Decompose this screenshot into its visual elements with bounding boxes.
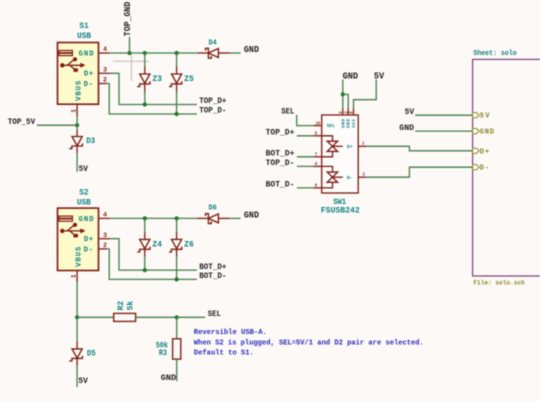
wire GND to SW1 <box>342 80 344 109</box>
wire 5V to sheet <box>415 114 472 116</box>
zener D3 <box>69 130 82 172</box>
analog switch SW1 body <box>322 115 359 193</box>
SW1 pin 7 <box>314 152 322 158</box>
svg-text:1: 1 <box>70 109 77 113</box>
svg-text:SEL: SEL <box>208 309 221 319</box>
svg-text:4: 4 <box>103 212 107 219</box>
svg-text:Z3: Z3 <box>152 75 162 84</box>
S1 pin 2 <box>99 77 108 84</box>
svg-text:5: 5 <box>315 131 318 137</box>
svg-text:5V: 5V <box>374 71 385 81</box>
SW1 pin 10 SEL <box>314 120 322 126</box>
svg-text:5V: 5V <box>79 164 89 174</box>
SW1 top pin 3 <box>345 108 349 115</box>
junction SEL/VBUS <box>75 315 79 319</box>
svg-text:2: 2 <box>103 77 107 84</box>
ghost cursor cross <box>113 52 149 81</box>
wire TOP_D+ net <box>110 73 197 104</box>
svg-text:D5: D5 <box>87 350 96 359</box>
wire SEL net <box>177 316 206 318</box>
svg-text:When S2 is plugged, SEL=5V/1 a: When S2 is plugged, SEL=5V/1 and D2 pair… <box>194 340 424 348</box>
svg-text:D3: D3 <box>86 137 95 146</box>
svg-text:GND: GND <box>399 123 414 133</box>
wire junction to R3 <box>176 317 178 339</box>
sheet pin 5V <box>473 113 491 121</box>
wire BOT_D+ net <box>110 239 197 270</box>
hierarchical sheet solo <box>473 59 540 276</box>
wire R3 to GND <box>176 359 178 381</box>
svg-text:D-: D- <box>347 175 353 181</box>
wire junction to R2 <box>77 316 114 318</box>
wire 5V to SW1 <box>354 80 377 109</box>
junction TOP_D- <box>175 112 179 116</box>
wire BOT_D+ to pin 7 <box>297 156 314 158</box>
svg-text:2: 2 <box>103 242 107 249</box>
S1 USB trident icon <box>60 57 85 72</box>
junction Z5 top <box>175 51 179 55</box>
svg-text:5V: 5V <box>78 376 88 386</box>
wire BOT_D- to pin 6 <box>297 187 314 189</box>
SW1 pin 2 D- <box>358 172 366 178</box>
svg-text:S2: S2 <box>79 188 88 197</box>
wire D- to sheet <box>366 167 472 177</box>
junction Z4 top <box>143 216 147 220</box>
svg-text:5k: 5k <box>126 301 135 311</box>
connector S2 body <box>58 208 99 270</box>
wire SEL to pin 10 <box>297 115 314 126</box>
junction TOP_GND <box>127 51 131 55</box>
svg-text:2: 2 <box>362 172 365 178</box>
svg-text:FSUSB242: FSUSB242 <box>321 207 360 216</box>
junction BOT_D+ <box>143 268 147 272</box>
svg-text:D+: D+ <box>480 148 489 156</box>
connector S1 body <box>58 43 99 105</box>
SW1 pin 6 <box>314 183 322 189</box>
S2 pin 1 <box>70 271 77 282</box>
svg-text:6: 6 <box>315 183 318 189</box>
svg-text:VBUS: VBUS <box>75 246 83 267</box>
zener Z6 <box>169 218 182 279</box>
sheet pin GND <box>473 129 494 137</box>
diode D4 <box>198 48 241 58</box>
junction BOT_D- <box>175 277 179 281</box>
SW1 switch element 1 <box>322 136 343 157</box>
svg-text:BOT_D+: BOT_D+ <box>266 148 295 158</box>
svg-text:R3: R3 <box>159 349 167 358</box>
S2 pin 3 <box>99 232 110 239</box>
svg-text:Z6: Z6 <box>184 241 194 250</box>
diode D6 <box>198 214 241 224</box>
svg-text:TOP_D+: TOP_D+ <box>199 96 226 106</box>
sheet pin D+ <box>473 148 490 156</box>
svg-text:1: 1 <box>362 141 365 147</box>
zener D5 <box>69 342 82 388</box>
wire VBUS S2 down <box>76 282 78 318</box>
wire R2 to junction <box>136 316 177 318</box>
wire to D5 <box>76 317 78 341</box>
svg-text:D-: D- <box>84 81 93 89</box>
sheet pin D- <box>473 165 490 173</box>
svg-text:VBUS: VBUS <box>75 80 83 101</box>
SW1 top pin 8 <box>351 108 355 115</box>
S2 receptacle icon <box>59 216 73 221</box>
svg-text:USB: USB <box>77 198 91 207</box>
svg-text:7: 7 <box>315 152 318 158</box>
svg-text:3: 3 <box>103 232 107 239</box>
zener Z3 <box>137 53 150 105</box>
svg-text:D-: D- <box>480 165 489 173</box>
wire D+ to sheet <box>366 146 472 151</box>
svg-text:GND: GND <box>343 71 359 81</box>
svg-text:GND: GND <box>79 216 95 224</box>
wire TOP_D+ to pin 5 <box>297 135 314 137</box>
svg-text:10: 10 <box>316 120 321 126</box>
SW1 pin 4 <box>314 161 322 167</box>
svg-text:GND: GND <box>79 51 95 59</box>
svg-text:BOT_D-: BOT_D- <box>266 180 295 190</box>
svg-text:TOP_5V: TOP_5V <box>8 117 36 127</box>
svg-text:TOP_GND: TOP_GND <box>123 1 133 36</box>
svg-text:5V: 5V <box>405 107 415 117</box>
svg-text:1: 1 <box>70 274 77 278</box>
svg-text:BOT_D-: BOT_D- <box>199 271 226 281</box>
wire TOP_GND stub <box>129 37 131 53</box>
svg-text:USB: USB <box>77 32 91 41</box>
zener Z5 <box>169 53 182 114</box>
svg-text:TOP_D-: TOP_D- <box>199 106 226 116</box>
svg-text:Z4: Z4 <box>152 241 162 250</box>
svg-text:SEL: SEL <box>327 123 336 129</box>
svg-text:GND: GND <box>161 373 176 383</box>
SW1 switch element 2 <box>322 166 343 188</box>
svg-text:R2: R2 <box>117 301 126 311</box>
svg-text:TOP_D-: TOP_D- <box>266 158 295 168</box>
svg-text:GND: GND <box>480 129 494 137</box>
svg-text:VCC: VCC <box>352 119 357 128</box>
svg-text:GND: GND <box>244 45 259 55</box>
zener Z4 <box>137 218 150 270</box>
svg-text:Default to S1.: Default to S1. <box>194 349 254 357</box>
S1 receptacle icon <box>59 51 73 56</box>
svg-text:GND: GND <box>341 119 346 128</box>
svg-text:File: solo.sch: File: solo.sch <box>473 280 524 288</box>
S2 pin 2 <box>99 242 108 249</box>
resistor R3 <box>173 339 181 359</box>
junction R3 top <box>175 315 179 319</box>
wire BOT_D- net <box>107 249 197 280</box>
S2 pin 4 <box>99 212 110 219</box>
svg-text:D-: D- <box>84 246 93 254</box>
wire TOP_5V net <box>37 124 77 126</box>
svg-text:4: 4 <box>103 46 107 53</box>
junction Z6 top <box>175 216 179 220</box>
S1 pin 3 <box>99 67 110 74</box>
svg-text:Reversible USB-A.: Reversible USB-A. <box>194 329 267 337</box>
svg-text:Z5: Z5 <box>184 75 194 84</box>
junction Z3 top <box>143 51 147 55</box>
SW1 top pin 9 <box>340 108 344 115</box>
junction TOP_D+ <box>143 102 147 106</box>
svg-text:D+: D+ <box>84 71 94 79</box>
wire GND net S2 <box>110 217 198 219</box>
SW1 pin 1 D+ <box>358 141 366 147</box>
svg-text:GND: GND <box>244 211 259 221</box>
svg-text:GND: GND <box>347 119 352 128</box>
wire GND to sheet <box>415 130 472 132</box>
svg-text:SEL: SEL <box>281 107 294 117</box>
svg-text:4: 4 <box>315 161 318 167</box>
svg-text:D+: D+ <box>84 236 94 244</box>
S2 USB trident icon <box>60 223 85 238</box>
wire TOP_D- net <box>107 84 197 115</box>
svg-text:D6: D6 <box>209 205 217 213</box>
wire GND net S1 <box>110 52 198 54</box>
svg-text:3: 3 <box>103 67 107 74</box>
svg-text:S1: S1 <box>79 22 88 31</box>
S1 pin 4 <box>99 46 110 53</box>
wire VBUS S1 to D3 <box>76 116 78 130</box>
junction TOP_5V <box>75 123 79 127</box>
svg-text:D+: D+ <box>347 144 353 150</box>
wire GND branch to pin 3 <box>343 94 348 108</box>
svg-text:TOP_D+: TOP_D+ <box>266 127 295 137</box>
resistor R2 <box>114 313 136 321</box>
svg-text:D4: D4 <box>209 39 218 47</box>
SW1 pin 5 <box>314 131 322 137</box>
wire TOP_D- to pin 4 <box>297 165 314 167</box>
svg-text:5V: 5V <box>480 113 490 121</box>
S1 pin 1 <box>70 104 77 116</box>
svg-text:Sheet: solo: Sheet: solo <box>473 50 517 58</box>
junction GND branch <box>341 92 345 96</box>
